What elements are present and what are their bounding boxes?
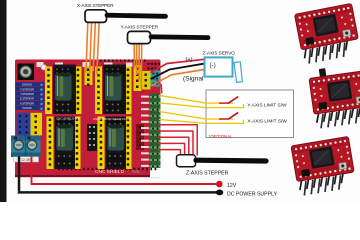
svg-text:X-AXIS STEPPER: X-AXIS STEPPER <box>77 3 114 9</box>
DC power screw terminal <box>11 136 41 163</box>
power supply black wire <box>19 157 217 193</box>
left blue pin header column <box>39 82 45 111</box>
svg-text:X.STEP/DIR: X.STEP/DIR <box>20 88 34 91</box>
board top pin hole row <box>100 59 146 61</box>
svg-text:Z.STEP/DIR: Z.STEP/DIR <box>20 98 34 101</box>
driver socket X (headers, electrolytic cap, DIP IC) <box>45 65 82 115</box>
endstop green header column <box>142 71 161 169</box>
svg-text:(-): (-) <box>210 62 216 69</box>
svg-text:DC POWER SUPPLY: DC POWER SUPPLY <box>227 191 278 197</box>
lower-left blue/yellow headers <box>17 113 43 136</box>
svg-text:Y-AXIS LIMIT S/W: Y-AXIS LIMIT S/W <box>247 103 287 109</box>
reset button SW1 <box>18 64 35 81</box>
limit switch enclosure box <box>206 90 294 138</box>
video letterbox bar (left edge) <box>0 0 7 202</box>
Y limit switch lever <box>219 97 238 104</box>
svg-text:Y.STEP/DIR: Y.STEP/DIR <box>20 93 34 96</box>
driver socket A (headers, electrolytic cap, DIP IC) <box>98 117 132 170</box>
Z stepper connector plug <box>177 155 196 167</box>
spindle enable red wire stub <box>156 79 162 94</box>
Y stepper cable <box>151 34 208 40</box>
servo (+) wire red <box>151 59 205 72</box>
Y stepper wires (orange) <box>134 43 142 88</box>
svg-text:A.STEP/DIR: A.STEP/DIR <box>20 102 34 105</box>
stepper driver module A4988 #2 (middle right) <box>309 70 360 129</box>
svg-text:CNC-SHIELD-V3: CNC-SHIELD-V3 <box>56 116 79 120</box>
stepper driver module A4988 #3 (bottom right) <box>291 136 357 196</box>
Z motor output header <box>87 124 97 151</box>
Z stepper cable <box>196 158 266 164</box>
servo signal wire orange <box>152 70 205 86</box>
servo horn <box>234 62 242 83</box>
servo body box <box>205 57 233 76</box>
DC supply terminal dot (black) <box>216 190 223 196</box>
12V terminal dot (red) <box>216 181 223 188</box>
power supply red wire <box>32 157 217 185</box>
board top-right pin holes <box>147 63 160 70</box>
Y motor output header <box>134 65 142 91</box>
Y limit switch wires (yellow) <box>159 95 244 107</box>
svg-text:*OPTIONAL: *OPTIONAL <box>209 134 233 139</box>
X stepper connector plug <box>85 10 107 23</box>
svg-text:EN/GND: EN/GND <box>22 84 32 87</box>
svg-text:Y-AXIS STEPPER: Y-AXIS STEPPER <box>121 25 159 31</box>
svg-text:(Signal: (Signal <box>183 75 204 82</box>
svg-text:12V: 12V <box>227 183 237 189</box>
bottom pin hole row <box>58 168 158 170</box>
X limit switch wires (yellow) <box>159 112 244 124</box>
servo (-) wire black <box>151 64 205 79</box>
svg-text:Z-AXIS STEPPER: Z-AXIS STEPPER <box>186 171 229 177</box>
svg-text:X-AXIS LIMIT S/W: X-AXIS LIMIT S/W <box>247 119 287 125</box>
board top silkscreen dashes <box>37 62 133 70</box>
stepper driver module A4988 #1 (top right) <box>295 3 360 64</box>
svg-text:5V/GND: 5V/GND <box>22 107 32 110</box>
driver socket Z (headers, electrolytic cap, DIP IC) <box>47 117 81 170</box>
X limit switch lever <box>219 113 238 120</box>
svg-text:Z-AXIS SERVO: Z-AXIS SERVO <box>203 51 236 57</box>
pin function labels (EN/GND ... 5V/GND) <box>16 82 39 110</box>
Y stepper connector plug <box>128 31 151 43</box>
X stepper cable <box>107 15 166 16</box>
X motor output header <box>85 66 93 86</box>
svg-text:V3.51: V3.51 <box>132 169 140 173</box>
svg-text:(+): (+) <box>186 57 193 63</box>
endstop label silkscreen dashes <box>141 96 149 167</box>
Z stepper wire bundle (red) <box>158 125 197 156</box>
svg-text:WWW.PROTONEER.CO.NZ: WWW.PROTONEER.CO.NZ <box>93 117 131 121</box>
A motor output header <box>136 124 144 150</box>
svg-text:CNC SHIELD: CNC SHIELD <box>95 169 125 175</box>
driver socket Y (headers, electrolytic cap, DIP IC) <box>95 65 132 115</box>
driver 2 electrolytic capacitor <box>319 68 327 80</box>
CNC shield v3 PCB board <box>15 60 161 178</box>
X stepper wires (orange) <box>86 22 99 75</box>
